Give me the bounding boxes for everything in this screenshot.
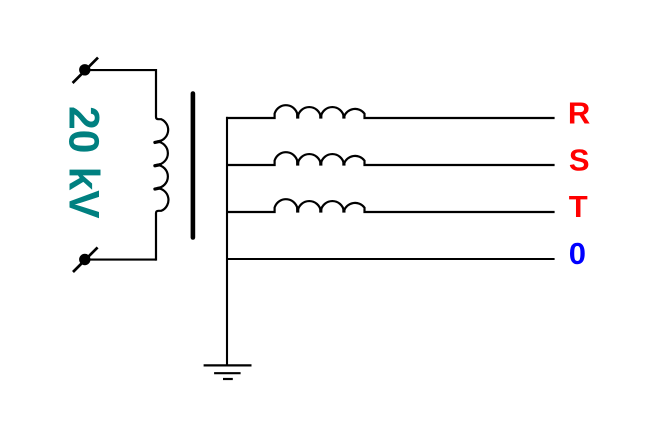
row T cusp nub 2 [319,208,322,213]
wire row 0 neutral [226,258,555,260]
terminal dot top primary [79,64,90,75]
row S cusp nub 1 [296,161,299,166]
row R cusp nub 3 [342,114,345,119]
row S cusp nub 3 [342,161,345,166]
ground bar 3 [223,378,233,380]
terminal dot bottom primary [79,254,90,265]
terminal slash top primary [73,58,98,83]
ground bar 2 [214,372,241,374]
primary winding cusp nub 2 [155,165,160,166]
primary winding cusp nub 1 [155,141,160,142]
ground bar 1 [204,364,252,366]
svg-text:kV: kV [59,167,106,220]
wire bottom primary horizontal [85,259,156,261]
row T cusp nub 1 [296,208,299,213]
svg-text:R: R [568,95,590,130]
secondary bus vertical wire [226,117,228,366]
primary winding cusp nub 3 [155,188,160,189]
transformer core bar [191,94,196,238]
svg-text:T: T [569,189,588,224]
secondary winding row S [226,152,555,165]
row T cusp nub 3 [342,208,345,213]
secondary winding row T [226,199,555,212]
row R cusp nub 1 [296,114,299,119]
svg-text:20: 20 [59,106,106,153]
terminal slash bottom primary [73,247,98,272]
secondary winding row R [226,105,555,118]
wire top primary horizontal [85,69,156,71]
row S cusp nub 2 [319,161,322,166]
primary winding L1 [156,69,168,261]
svg-text:0: 0 [569,236,586,271]
svg-text:S: S [569,142,590,177]
row R cusp nub 2 [319,114,322,119]
